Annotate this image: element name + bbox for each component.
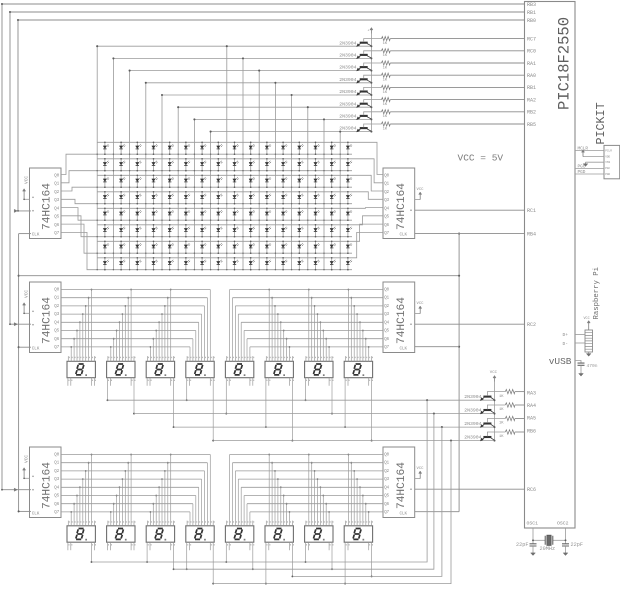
- svg-text:RB5: RB5: [527, 122, 536, 128]
- display DT5 top pins: [227, 521, 253, 526]
- wire segment bus left DT Q6: [61, 503, 193, 505]
- wire base digit 1 to PIC: [515, 404, 525, 406]
- wire segment bus right DS Q3: [238, 313, 383, 315]
- wire display DT1 segment riser 2: [76, 496, 78, 526]
- svg-text:74HC164: 74HC164: [396, 297, 408, 344]
- wire display DT3 segment riser 7: [170, 455, 172, 526]
- wire row 2 anode to U3 Q2: [97, 175, 383, 191]
- svg-text:RB6: RB6: [527, 428, 536, 434]
- svg-text:RA5: RA5: [527, 416, 536, 422]
- LED D3_2: [120, 175, 122, 187]
- wire row 6 cathode from U2 Q6: [61, 224, 352, 253]
- wire display DS3 segment riser 2: [155, 331, 157, 362]
- LED D3_13: [298, 175, 300, 187]
- svg-text:470n: 470n: [587, 363, 598, 369]
- wire segment bus right DS Q4: [241, 321, 383, 323]
- LED D8_14: [315, 258, 317, 270]
- LED D3_1: [104, 175, 106, 187]
- svg-text:Q4: Q4: [384, 207, 389, 211]
- LED D2_5: [169, 159, 171, 171]
- LED D8_3: [136, 258, 138, 270]
- wire segment bus right DS Q2: [235, 305, 383, 307]
- svg-text:Q5: Q5: [54, 495, 59, 499]
- LED D4_4: [153, 192, 155, 204]
- svg-text:RC7: RC7: [527, 36, 536, 42]
- wire display DS2 segment riser 0: [110, 347, 112, 361]
- LED D1_16: [347, 142, 349, 154]
- wire display DT1 segment riser 5: [85, 471, 87, 526]
- wire CLK stub bottom-right chip: [415, 511, 459, 513]
- svg-text:PGC: PGC: [605, 167, 610, 170]
- display DS5 common pins: [225, 378, 227, 414]
- wire display DS8 segment riser 1: [350, 298, 352, 362]
- svg-text:OSC2: OSC2: [557, 521, 569, 527]
- svg-text:2N3904: 2N3904: [339, 65, 356, 71]
- display DT1 common pins: [67, 542, 69, 550]
- resistor R5 1K base: [364, 87, 382, 90]
- wire display DS3 segment riser 7: [170, 290, 172, 362]
- wire display DS2 segment riser 4: [121, 314, 123, 361]
- svg-text:Q5: Q5: [384, 495, 389, 499]
- svg-text:Q5: Q5: [54, 330, 59, 334]
- wire display DT3 segment riser 4: [161, 479, 163, 526]
- 7-seg display DS7: [305, 361, 333, 377]
- wire display DT7 segment riser 3: [317, 479, 319, 526]
- wire row 4 anode to U3 Q4: [97, 207, 383, 210]
- wire display DT5 segment riser 2: [234, 471, 236, 526]
- wire display DT1 segment riser 3: [79, 487, 81, 526]
- wire row 4 cathode from U2 Q4: [61, 208, 352, 221]
- wire display DT5 segment riser 4: [240, 487, 242, 526]
- wire display DS4 segment riser 4: [201, 314, 203, 361]
- wire display DT2 segment riser 4: [121, 479, 123, 526]
- wire segment bus left DT Q5: [61, 495, 196, 497]
- svg-text:CLK: CLK: [32, 513, 40, 517]
- shift register U7 74HC164 (right): [383, 447, 415, 518]
- wire PGC to PICKIT: [575, 167, 604, 169]
- svg-text:Q0: Q0: [384, 453, 389, 457]
- wire display DS1 segment riser 3: [79, 322, 81, 361]
- svg-text:2N3904: 2N3904: [464, 421, 481, 427]
- wire display DT2 segment riser 1: [113, 504, 115, 526]
- LED D8_8: [217, 258, 219, 270]
- LED D2_10: [250, 159, 252, 171]
- wire digit-select bus 0 (bottom row): [92, 400, 428, 562]
- svg-text:CLK: CLK: [32, 234, 40, 238]
- LED D5_7: [201, 208, 203, 220]
- LED D8_2: [120, 258, 122, 270]
- wire display DS7 segment riser 5: [322, 331, 324, 362]
- LED D2_3: [136, 159, 138, 171]
- LED D1_11: [266, 142, 268, 154]
- LED D4_1: [104, 192, 106, 204]
- wire display DT3 segment riser 3: [158, 487, 160, 526]
- wire base 6 to PIC: [390, 111, 524, 113]
- wire column pair 1 feed: [113, 58, 371, 269]
- wire display DT4 segment riser 6: [206, 463, 208, 526]
- wire base 3 to PIC: [390, 74, 524, 76]
- wire display DS5 segment riser 4: [240, 322, 242, 361]
- LED D8_11: [266, 258, 268, 270]
- LED D6_16: [347, 225, 349, 237]
- svg-text:Q4: Q4: [384, 486, 389, 490]
- wire display DS7 segment riser 7: [328, 347, 330, 361]
- LED D6_6: [185, 225, 187, 237]
- wire display DT3 segment riser 5: [164, 471, 166, 526]
- wire row 1 cathode from U2 Q1: [61, 171, 352, 183]
- svg-text:2N3904: 2N3904: [339, 101, 356, 107]
- svg-text:Q4: Q4: [54, 321, 59, 325]
- shift register U4 74HC164 (left): [30, 282, 62, 353]
- wire segment bus right DS Q7: [250, 346, 383, 348]
- wire display DT8 segment riser 2: [353, 471, 355, 526]
- wire net RB3 data to bottom 74HC164 (left/top frame): [2, 4, 525, 490]
- junction dots bus columns: [96, 153, 97, 154]
- LED D8_10: [250, 258, 252, 270]
- svg-text:1K: 1K: [383, 79, 388, 83]
- LED D4_12: [282, 192, 284, 204]
- svg-text:1K: 1K: [383, 91, 388, 95]
- LED D8_13: [298, 258, 300, 270]
- LED D6_1: [104, 225, 106, 237]
- wire segment bus right DT Q5: [244, 495, 383, 497]
- svg-text:2N3904: 2N3904: [339, 89, 356, 95]
- LED D2_9: [234, 159, 236, 171]
- wire display DS1 segment riser 0: [70, 347, 72, 361]
- display DT6 common pins: [265, 542, 267, 583]
- LED D1_2: [120, 142, 122, 154]
- display DS3 top pins: [148, 356, 174, 361]
- svg-text:VCC = 5V: VCC = 5V: [458, 153, 504, 164]
- wire display DS7 segment riser 0: [308, 290, 310, 362]
- wire column pair 3 feed: [146, 83, 372, 270]
- wire display DS1 segment riser 5: [85, 306, 87, 361]
- wire segment bus left DT Q7: [61, 511, 190, 513]
- wire row 1 anode to U3 Q1: [97, 159, 383, 183]
- LED D4_6: [185, 192, 187, 204]
- wire display DT8 segment riser 5: [362, 496, 364, 526]
- LED D5_9: [234, 208, 236, 220]
- resistor R3 1K base: [364, 63, 382, 66]
- LED D7_9: [234, 241, 236, 253]
- svg-text:Q1: Q1: [54, 297, 59, 301]
- wire segment bus left DS Q5: [61, 330, 196, 332]
- wire column pair 7 feed: [211, 132, 372, 270]
- svg-text:22pF: 22pF: [571, 542, 583, 548]
- svg-text:1K: 1K: [383, 127, 388, 131]
- wire display DS7 segment riser 6: [325, 339, 327, 362]
- display DS8 common pins: [344, 378, 346, 427]
- resistor R10 1K base: [487, 405, 505, 409]
- LED D4_15: [331, 192, 333, 204]
- wire row 7 cathode from U2 Q7: [61, 232, 352, 269]
- svg-text:2N3904: 2N3904: [339, 126, 356, 132]
- wire display DS5 segment riser 0: [229, 290, 231, 362]
- LED D8_6: [185, 258, 187, 270]
- wire display DS4 segment riser 7: [209, 290, 211, 362]
- resistor R7 1K base: [364, 112, 382, 115]
- 7-seg display DS2: [107, 361, 135, 377]
- LED D8_1: [104, 258, 106, 270]
- wire display DS5 segment riser 7: [249, 347, 251, 361]
- resistor R2 1K base: [364, 51, 382, 54]
- resistor R1 1K base: [364, 39, 382, 42]
- svg-text:RB3: RB3: [527, 2, 536, 8]
- svg-text:D-: D-: [563, 341, 569, 347]
- 7-seg display DT5: [225, 526, 253, 542]
- LED D6_12: [282, 225, 284, 237]
- wire segment bus left DS Q1: [61, 297, 207, 299]
- LED D1_1: [104, 142, 106, 154]
- svg-text:Q6: Q6: [54, 224, 59, 228]
- LED D4_14: [315, 192, 317, 204]
- wire display DT4 segment riser 4: [201, 479, 203, 526]
- display DS6 top pins: [266, 356, 292, 361]
- svg-text:2N3904: 2N3904: [339, 114, 356, 120]
- wire base 4 to PIC: [390, 86, 524, 88]
- wire CLK horizontal link: [19, 275, 460, 277]
- wire base 5 to PIC: [390, 99, 524, 101]
- LED D2_1: [104, 159, 106, 171]
- wire display DT5 segment riser 7: [249, 512, 251, 526]
- LED D1_3: [136, 142, 138, 154]
- LED D8_7: [201, 258, 203, 270]
- wire display DT4 segment riser 1: [192, 504, 194, 526]
- LED D2_13: [298, 159, 300, 171]
- display DS5 top pins: [227, 356, 253, 361]
- wire display DT4 segment riser 5: [204, 471, 206, 526]
- LED D5_16: [347, 208, 349, 220]
- wire display DS6 segment riser 0: [268, 290, 270, 362]
- wire display DT7 segment riser 0: [308, 455, 310, 526]
- display DT1 top pins: [68, 521, 94, 526]
- svg-text:PICKIT: PICKIT: [594, 102, 608, 144]
- wire OSC1: [532, 528, 534, 544]
- display DT3 common pins: [146, 542, 148, 562]
- LED D6_11: [266, 225, 268, 237]
- wire display DS4 segment riser 1: [192, 339, 194, 362]
- wire digit-select bus 1 (bottom row): [174, 414, 434, 570]
- wire display DS5 segment riser 6: [246, 339, 248, 362]
- LED D6_2: [120, 225, 122, 237]
- LED D1_4: [153, 142, 155, 154]
- wire display DS7 segment riser 2: [314, 306, 316, 361]
- wire row 7 anode to U3 Q7: [97, 232, 383, 257]
- display DS7 common pins: [305, 378, 307, 401]
- wire display DS8 segment riser 7: [368, 347, 370, 361]
- LED D5_13: [298, 208, 300, 220]
- svg-text:Q1: Q1: [54, 462, 59, 466]
- wire MCLR to PICKIT: [575, 150, 604, 152]
- 7-seg display DS5: [225, 361, 253, 377]
- wire segment bus right DT Q7: [250, 511, 383, 513]
- display DS6 common pins: [265, 378, 267, 427]
- svg-text:Q3: Q3: [384, 199, 389, 203]
- wire display DS3 segment riser 1: [152, 339, 154, 362]
- ground header: [588, 352, 590, 354]
- wire display DS1 segment riser 7: [91, 290, 93, 362]
- LED D4_16: [347, 192, 349, 204]
- LED D5_10: [250, 208, 252, 220]
- svg-text:1K: 1K: [383, 54, 388, 58]
- svg-text:2N3904: 2N3904: [339, 53, 356, 59]
- LED D6_15: [331, 225, 333, 237]
- wire display DS2 segment riser 2: [116, 331, 118, 362]
- LED D8_9: [234, 258, 236, 270]
- svg-text:1K: 1K: [383, 42, 388, 46]
- wire display DS8 segment riser 0: [347, 290, 349, 362]
- LED D7_4: [153, 241, 155, 253]
- wire row 3 cathode from U2 Q3: [61, 199, 352, 203]
- capacitor C3 470n on vUSB: [575, 361, 581, 363]
- display DS8 top pins: [346, 356, 372, 361]
- resistor R12 1K base: [487, 432, 505, 436]
- wire display DS4 segment riser 5: [204, 306, 206, 361]
- wire digit-select bus 3 (bottom row): [213, 441, 451, 584]
- LED D3_5: [169, 175, 171, 187]
- wire OSC2: [565, 528, 567, 544]
- wire display DT7 segment riser 4: [319, 487, 321, 526]
- svg-text:RB1: RB1: [527, 85, 536, 91]
- svg-text:Q0: Q0: [384, 288, 389, 292]
- svg-text:RB2: RB2: [527, 110, 536, 116]
- LED D3_10: [250, 175, 252, 187]
- svg-text:RA1: RA1: [527, 61, 536, 67]
- svg-text:Q7: Q7: [54, 346, 59, 350]
- svg-text:RB1: RB1: [527, 10, 536, 16]
- VCC rail top transistor group: [370, 34, 372, 132]
- svg-text:VDD: VDD: [605, 155, 610, 158]
- display DT2 top pins: [108, 521, 134, 526]
- svg-text:Q1: Q1: [384, 462, 389, 466]
- LED D1_9: [234, 142, 236, 154]
- LED D2_8: [217, 159, 219, 171]
- svg-text:Q1: Q1: [384, 183, 389, 187]
- LED D5_5: [169, 208, 171, 220]
- wire display DT7 segment riser 6: [325, 504, 327, 526]
- wire display DT3 segment riser 0: [149, 512, 151, 526]
- display DT4 common pins: [186, 542, 188, 569]
- wire display DT6 segment riser 0: [268, 455, 270, 526]
- svg-text:OSC1: OSC1: [527, 521, 539, 527]
- wire D+ to header: [575, 334, 585, 336]
- 7-seg display DT8: [344, 526, 372, 542]
- LED D3_16: [347, 175, 349, 187]
- LED D1_6: [185, 142, 187, 154]
- wire display DT8 segment riser 0: [347, 455, 349, 526]
- svg-text:Q1: Q1: [54, 183, 59, 187]
- LED D7_10: [250, 241, 252, 253]
- wire segment bus left DT Q3: [61, 478, 202, 480]
- svg-text:Q2: Q2: [384, 305, 389, 309]
- connector J2 Raspberry Pi: [585, 330, 593, 352]
- svg-text:Q0: Q0: [54, 453, 59, 457]
- wire display DT2 segment riser 6: [127, 463, 129, 526]
- LED D7_1: [104, 241, 106, 253]
- svg-text:VCC: VCC: [23, 290, 29, 298]
- wire display DT2 segment riser 5: [124, 471, 126, 526]
- wire D- to header: [575, 342, 585, 344]
- LED D5_8: [217, 208, 219, 220]
- LED D7_7: [201, 241, 203, 253]
- LED D8_15: [331, 258, 333, 270]
- svg-text:Q6: Q6: [384, 338, 389, 342]
- wire segment bus right DS Q0: [230, 289, 383, 291]
- wire segment bus left DT Q4: [61, 486, 199, 488]
- LED D7_13: [298, 241, 300, 253]
- svg-text:Q3: Q3: [384, 313, 389, 317]
- wire digit-select bus 2 (bottom row): [293, 427, 442, 576]
- wire column pair 6 feed: [194, 119, 371, 269]
- wire display DT8 segment riser 7: [368, 512, 370, 526]
- LED D4_11: [266, 192, 268, 204]
- wire display DS3 segment riser 3: [158, 322, 160, 361]
- svg-text:74HC164: 74HC164: [396, 462, 408, 509]
- wire display DT5 segment riser 0: [229, 455, 231, 526]
- 7-seg display DS4: [186, 361, 214, 377]
- svg-text:Q3: Q3: [384, 478, 389, 482]
- wire display DS3 segment riser 4: [161, 314, 163, 361]
- LED D4_9: [234, 192, 236, 204]
- svg-text:1K: 1K: [499, 395, 504, 399]
- LED D1_12: [282, 142, 284, 154]
- LED D4_3: [136, 192, 138, 204]
- wire display DT6 segment riser 4: [280, 487, 282, 526]
- LED D8_12: [282, 258, 284, 270]
- svg-text:Q7: Q7: [54, 232, 59, 236]
- wire display DT5 segment riser 6: [246, 504, 248, 526]
- svg-text:Raspberry Pi: Raspberry Pi: [593, 266, 601, 319]
- svg-text:RC2: RC2: [527, 322, 536, 328]
- LED D7_6: [185, 241, 187, 253]
- LED D4_5: [169, 192, 171, 204]
- wire base digit 3 to PIC: [515, 431, 525, 433]
- wire display DT8 segment riser 4: [359, 487, 361, 526]
- svg-text:RA4: RA4: [527, 403, 536, 409]
- svg-text:2N3904: 2N3904: [464, 408, 481, 414]
- wire display DS5 segment riser 3: [237, 314, 239, 361]
- svg-text:PIC18F2550: PIC18F2550: [556, 17, 574, 110]
- wire CLK stub middle-left chip: [19, 346, 31, 348]
- wire segment bus right DS Q1: [233, 297, 384, 299]
- wire display DS6 segment riser 2: [274, 306, 276, 361]
- svg-text:PGD: PGD: [605, 173, 610, 176]
- display DT5 common pins: [225, 542, 227, 562]
- LED D8_4: [153, 258, 155, 270]
- wire display DS8 segment riser 3: [356, 314, 358, 361]
- display DS1 top pins: [68, 356, 94, 361]
- crystal X1 20MHz: [533, 539, 545, 541]
- wire display DT5 segment riser 1: [232, 463, 234, 526]
- 7-seg display DT6: [265, 526, 293, 542]
- LED D1_13: [298, 142, 300, 154]
- wire net CLK vertical right: [458, 234, 460, 512]
- LED D7_2: [120, 241, 122, 253]
- wire display DT4 segment riser 2: [195, 496, 197, 526]
- wire display DT2 segment riser 7: [130, 455, 132, 526]
- wire display DS4 segment riser 3: [198, 322, 200, 361]
- svg-text:2N3904: 2N3904: [464, 435, 481, 441]
- svg-text:RA2: RA2: [527, 97, 536, 103]
- svg-text:RB4: RB4: [527, 231, 536, 237]
- wire display DS3 segment riser 0: [149, 347, 151, 361]
- LED D7_3: [136, 241, 138, 253]
- 7-seg display DS8: [344, 361, 372, 377]
- wire display DT2 segment riser 2: [116, 496, 118, 526]
- display DS3 common pins: [146, 378, 148, 386]
- wire display DS2 segment riser 6: [127, 298, 129, 362]
- wire display DS2 segment riser 7: [130, 290, 132, 362]
